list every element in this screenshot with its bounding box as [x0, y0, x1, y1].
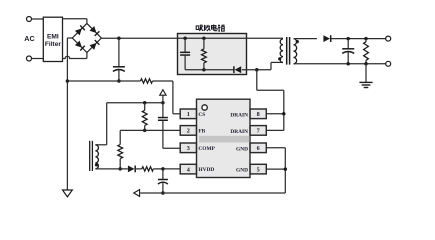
earth ground secondary — [359, 64, 372, 88]
HV startup arrow (up) — [160, 90, 166, 103]
pin 1 box — [180, 109, 196, 119]
diode snubber (points left) — [234, 66, 241, 73]
wire snubber diode to drain node — [242, 69, 271, 71]
svg-text:GND: GND — [236, 168, 248, 174]
svg-text:8: 8 — [257, 111, 260, 118]
node out cap bottom — [346, 62, 350, 66]
wire GND up to pins — [284, 148, 286, 193]
pin name HVDD — [198, 167, 214, 173]
wire output top rail — [331, 38, 386, 40]
wire pin5 to GND — [266, 168, 285, 170]
node out cap top — [346, 37, 350, 41]
resistor snubber (vertical) — [202, 38, 207, 69]
wire snubber bottom rail — [185, 69, 234, 71]
pin 2 box — [180, 126, 196, 136]
wire R-HVDD to pin4 — [153, 168, 180, 170]
transformer T2 aux core — [90, 141, 93, 171]
node HVDD at C-HVDD — [161, 167, 165, 171]
node out res bottom — [364, 62, 368, 66]
primary ground arrow — [63, 190, 73, 197]
aux net corner down — [95, 103, 106, 145]
node DC- rail left — [66, 79, 70, 83]
node snubber res top — [202, 37, 206, 41]
resistor output load (vertical) — [364, 39, 369, 64]
wire AC bottom to EMI — [32, 58, 44, 60]
node FB line at R-FB — [143, 129, 147, 133]
wire COMP corner to pin3 — [163, 147, 180, 149]
node snubber cap top — [183, 37, 187, 41]
GND arrow (left) — [134, 190, 140, 197]
svg-text:EMI: EMI — [47, 34, 59, 41]
svg-text:DRAIN: DRAIN — [230, 112, 248, 118]
transformer T2 aux winding — [95, 145, 98, 169]
pin 3 box — [180, 143, 196, 153]
svg-text:7: 7 — [257, 128, 260, 135]
pin name DRAIN — [230, 129, 248, 135]
bridge diode D-TR — [90, 26, 100, 36]
bridge diode D-LB — [75, 41, 85, 51]
EMI filter box — [43, 17, 62, 61]
svg-text:4: 4 — [187, 166, 190, 173]
wire drain drop — [257, 70, 284, 131]
pin 4 box — [180, 164, 196, 174]
resistor R-HVDD (horizontal) — [142, 167, 153, 171]
svg-text:3: 3 — [187, 145, 190, 152]
AC terminal bottom — [27, 56, 32, 61]
wire secondary bottom rail — [294, 63, 386, 65]
wire bridge left vertex jog — [67, 37, 72, 39]
node HVDD at R-aux — [118, 167, 122, 171]
diode D-aux (points right) — [128, 166, 135, 173]
op IC U1 body — [197, 99, 251, 177]
pin 5 box — [250, 164, 266, 174]
pin 7 box — [250, 126, 266, 136]
svg-text:CS: CS — [198, 112, 205, 118]
aux net top wire — [107, 102, 163, 104]
node DC- at bulk cap — [117, 79, 121, 83]
wire aux bottom to diode — [95, 168, 128, 170]
wire pin6 to GND — [266, 147, 285, 149]
T2 polarity dot — [95, 163, 98, 166]
capacitor C-HVDD — [158, 169, 168, 193]
wire DC+ rail bridge to transformer primary — [101, 37, 283, 39]
pin name GND — [236, 146, 248, 152]
output terminal bottom — [386, 61, 391, 66]
svg-text:COMP: COMP — [198, 146, 215, 152]
wire EMI bottom to bridge bottom (hop over DC- line) — [63, 56, 87, 58]
pin 6 box — [250, 143, 266, 153]
svg-text:DRAIN: DRAIN — [230, 129, 248, 135]
transformer T1 secondary winding — [294, 39, 297, 64]
wire DC- vertical down to primary ground — [66, 38, 68, 190]
wire GND line — [140, 192, 285, 194]
wire R-CS to CS corner — [153, 81, 181, 114]
svg-text:GND: GND — [236, 146, 248, 152]
resistor R-aux (vertical) — [118, 145, 123, 169]
wire primary bottom — [271, 62, 283, 69]
svg-text:FB: FB — [198, 129, 205, 135]
svg-text:AC: AC — [24, 34, 34, 43]
wire EMI top to bridge top vertex — [63, 19, 87, 24]
IC inner band — [199, 136, 250, 143]
svg-text:6: 6 — [257, 145, 260, 152]
capacitor bulk C-in — [113, 38, 125, 81]
node aux net at C-COMP — [161, 101, 165, 105]
transformer T1 core — [287, 37, 290, 65]
wire secondary top to diode — [294, 38, 317, 40]
pin name COMP — [198, 146, 215, 152]
node drain branch — [255, 68, 259, 72]
node drain at pin8 — [282, 112, 286, 116]
transformer T1 primary winding — [280, 39, 283, 63]
T1 secondary polarity dot — [296, 40, 299, 43]
bridge diode D-LT — [75, 26, 85, 36]
snubber circuit box — [178, 34, 247, 75]
capacitor snubber — [180, 38, 190, 69]
svg-text:1: 1 — [187, 111, 190, 118]
wire DC- rail — [67, 80, 140, 82]
pin 8 box — [250, 109, 266, 119]
diode output D-out — [323, 35, 330, 42]
capacitor C-COMP — [158, 103, 168, 149]
label snubber-circuit (吸收电路) — [196, 25, 224, 32]
svg-text:5: 5 — [257, 166, 260, 173]
label AC — [24, 34, 34, 43]
wire FB corner down — [119, 130, 121, 144]
node GND at C-HVDD — [161, 191, 165, 195]
node out res top — [364, 37, 368, 41]
pin name GND — [236, 168, 248, 174]
IC pin1 indicator circle — [202, 105, 207, 110]
wire pin8 to drain — [266, 113, 284, 115]
pin name DRAIN — [230, 112, 248, 118]
AC terminal top — [27, 17, 32, 22]
svg-text:Filter: Filter — [45, 41, 62, 48]
pin name FB — [198, 129, 205, 135]
resistor R-FB (vertical) — [142, 103, 147, 131]
node GND at pin5 — [284, 167, 288, 171]
capacitor output C-out — [342, 39, 354, 64]
resistor R-CS (horizontal) — [141, 79, 153, 83]
wire diode to R-HVDD — [135, 168, 142, 170]
wire bridge bottom vertex drop — [86, 53, 88, 59]
wire pin7 to drain — [266, 129, 284, 131]
output terminal top — [386, 36, 391, 41]
svg-text:HVDD: HVDD — [198, 167, 214, 173]
node aux net at R-FB — [143, 101, 147, 105]
node snubber res bottom — [202, 68, 206, 72]
svg-text:2: 2 — [187, 128, 190, 135]
wire FB line — [120, 129, 180, 131]
pin name CS — [198, 112, 205, 118]
node DC+ at bulk cap — [117, 37, 121, 41]
wire AC top to EMI — [32, 18, 44, 20]
bridge rectifier BR1 diamond — [72, 23, 101, 52]
T1 primary polarity dot — [278, 57, 281, 60]
bridge diode D-BR — [90, 40, 100, 50]
